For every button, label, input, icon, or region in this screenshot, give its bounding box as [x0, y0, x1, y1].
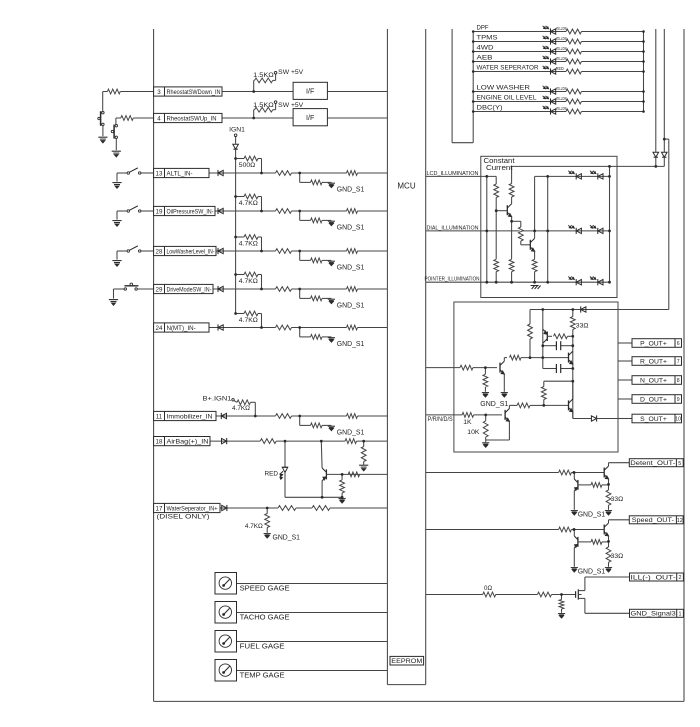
svg-text:RED: RED [556, 66, 565, 71]
svg-text:(DISEL ONLY): (DISEL ONLY) [157, 513, 210, 520]
svg-text:11: 11 [156, 413, 163, 420]
svg-text:TEMP GAGE: TEMP GAGE [240, 671, 285, 680]
svg-text:Detent_OUT-: Detent_OUT- [630, 460, 675, 467]
svg-text:POINTER_ILLUMINATION: POINTER_ILLUMINATION [425, 277, 480, 283]
svg-text:B+.IGN1: B+.IGN1 [203, 396, 232, 403]
svg-text:17: 17 [156, 505, 163, 512]
svg-text:10: 10 [675, 417, 681, 423]
svg-text:1K: 1K [463, 419, 472, 426]
svg-text:500Ω: 500Ω [239, 162, 255, 169]
svg-text:EEPROM: EEPROM [391, 658, 422, 665]
svg-text:ALTL_IN-: ALTL_IN- [167, 171, 193, 178]
svg-text:18: 18 [156, 439, 163, 446]
svg-text:RheostatSWDown_IN: RheostatSWDown_IN [167, 89, 221, 96]
svg-text:9: 9 [677, 397, 680, 403]
svg-text:33Ω: 33Ω [611, 496, 624, 503]
svg-text:AEB: AEB [477, 54, 493, 61]
svg-text:19: 19 [156, 208, 163, 215]
svg-text:4WD: 4WD [477, 44, 495, 51]
svg-text:YELLOW: YELLOW [556, 106, 567, 111]
svg-text:12: 12 [677, 518, 683, 524]
svg-text:TACHO GAGE: TACHO GAGE [240, 613, 290, 622]
svg-text:ENGINE OIL LEVEL: ENGINE OIL LEVEL [477, 94, 538, 101]
svg-text:RheostatSWUp_IN: RheostatSWUp_IN [167, 116, 217, 123]
svg-text:DPF: DPF [477, 24, 489, 31]
svg-text:IGN1: IGN1 [229, 126, 245, 133]
svg-text:DriveModeSW_IN-: DriveModeSW_IN- [167, 287, 212, 294]
svg-text:4: 4 [157, 115, 161, 122]
svg-text:YELLOW: YELLOW [556, 36, 567, 41]
svg-text:4.7KΩ: 4.7KΩ [239, 317, 258, 324]
svg-text:SPEED GAGE: SPEED GAGE [240, 584, 290, 593]
svg-text:LowWasherLevel_IN-: LowWasherLevel_IN- [167, 249, 215, 256]
svg-text:I/F: I/F [306, 113, 315, 122]
svg-text:7: 7 [677, 359, 680, 365]
svg-text:5: 5 [678, 461, 681, 467]
svg-text:1.5KΩ: 1.5KΩ [253, 102, 274, 109]
svg-text:4.7KΩ: 4.7KΩ [245, 523, 263, 530]
svg-text:GND_S1: GND_S1 [480, 401, 508, 408]
svg-text:GND_S1: GND_S1 [578, 512, 606, 519]
svg-text:I/F: I/F [306, 87, 315, 96]
svg-text:GND_S1: GND_S1 [337, 341, 365, 348]
svg-text:GND_S1: GND_S1 [337, 224, 365, 231]
svg-text:Speed_OUT-: Speed_OUT- [632, 517, 674, 524]
svg-text:13: 13 [156, 170, 163, 177]
svg-text:LCD_ILLUMINATION: LCD_ILLUMINATION [427, 171, 479, 177]
svg-text:Immobilizer_IN: Immobilizer_IN [167, 414, 213, 421]
svg-text:GND_S1: GND_S1 [337, 186, 365, 193]
svg-text:N(MT)_IN-: N(MT)_IN- [167, 325, 196, 332]
svg-text:OilPressureSW_IN-: OilPressureSW_IN- [167, 209, 214, 216]
svg-text:S_OUT+: S_OUT+ [640, 416, 667, 423]
svg-text:Constant: Constant [484, 158, 515, 165]
svg-text:YELLOW: YELLOW [556, 86, 567, 91]
svg-text:33Ω: 33Ω [611, 553, 624, 560]
svg-text:WATER SEPERATOR: WATER SEPERATOR [477, 64, 540, 71]
svg-text:GND_S1: GND_S1 [337, 302, 365, 309]
svg-text:YELLOW: YELLOW [556, 56, 567, 61]
svg-text:MCU: MCU [397, 182, 415, 191]
svg-text:GND_S1: GND_S1 [578, 569, 606, 576]
svg-text:GND_S1: GND_S1 [337, 264, 365, 271]
svg-text:TPMS: TPMS [477, 34, 498, 41]
svg-text:WaterSeperator_IN+: WaterSeperator_IN+ [167, 506, 218, 513]
svg-text:GND_Signal3: GND_Signal3 [631, 611, 676, 618]
svg-text:0Ω: 0Ω [484, 585, 492, 592]
svg-text:10K: 10K [467, 429, 480, 436]
svg-text:YELLOW: YELLOW [556, 26, 567, 31]
svg-text:DBC(Y): DBC(Y) [477, 104, 503, 111]
svg-text:3: 3 [157, 89, 161, 96]
svg-text:YELLOW: YELLOW [556, 46, 567, 51]
svg-text:GND_S1: GND_S1 [337, 429, 365, 436]
svg-text:SW +5V: SW +5V [278, 102, 304, 109]
svg-text:YELLOW: YELLOW [556, 96, 567, 101]
svg-text:2: 2 [679, 575, 682, 581]
svg-text:28: 28 [156, 248, 163, 255]
svg-text:P_OUT+: P_OUT+ [640, 340, 667, 347]
svg-text:RED: RED [265, 470, 279, 477]
svg-text:1.5KΩ: 1.5KΩ [253, 72, 274, 79]
svg-text:4.7KΩ: 4.7KΩ [232, 405, 250, 412]
svg-text:P/R/N/D/S: P/R/N/D/S [428, 416, 453, 423]
svg-text:FUEL GAGE: FUEL GAGE [240, 642, 285, 651]
svg-text:GND_S1: GND_S1 [273, 534, 301, 541]
svg-text:SW +5V: SW +5V [278, 69, 304, 76]
svg-text:4.7KΩ: 4.7KΩ [239, 241, 258, 248]
svg-text:DIAL_ILLUMINATION: DIAL_ILLUMINATION [427, 225, 479, 231]
svg-text:D_OUT+: D_OUT+ [640, 396, 667, 403]
svg-text:4.7KΩ: 4.7KΩ [239, 278, 258, 285]
svg-text:6: 6 [677, 341, 680, 347]
svg-text:33Ω: 33Ω [576, 322, 589, 329]
svg-text:4.7KΩ: 4.7KΩ [239, 200, 258, 207]
svg-text:AirBag(+)_IN: AirBag(+)_IN [167, 439, 209, 446]
svg-text:ILL(-)_OUT-: ILL(-)_OUT- [631, 574, 676, 581]
svg-text:Current: Current [486, 165, 513, 172]
svg-text:LOW WASHER: LOW WASHER [477, 84, 531, 91]
svg-text:8: 8 [677, 378, 680, 384]
svg-text:24: 24 [156, 325, 163, 332]
svg-text:1: 1 [679, 612, 682, 618]
svg-text:29: 29 [156, 286, 163, 293]
svg-text:N_OUT+: N_OUT+ [640, 377, 667, 384]
svg-text:R_OUT+: R_OUT+ [640, 358, 667, 365]
